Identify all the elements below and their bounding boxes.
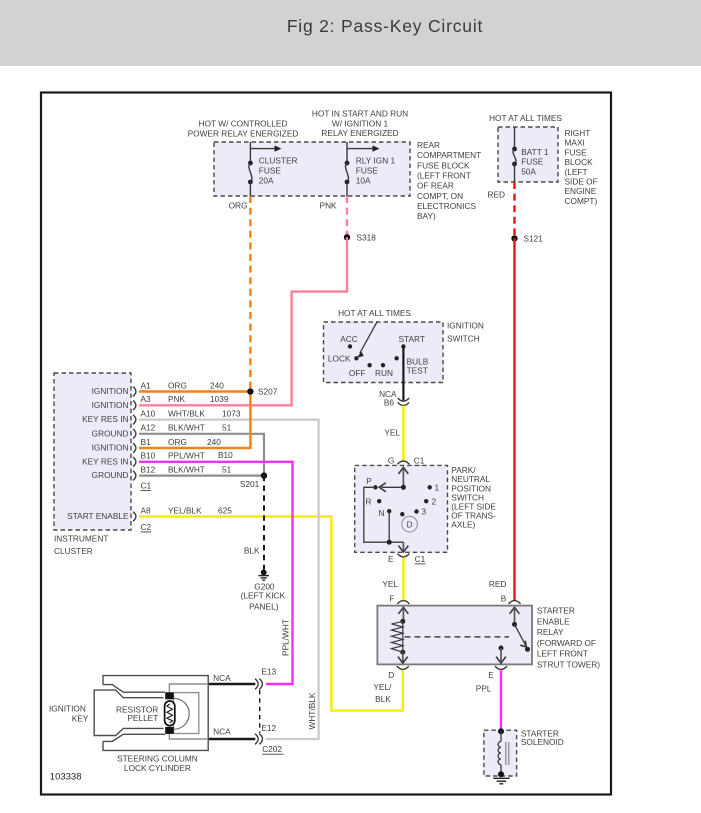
wire YEL/BLK relay D to A8 xyxy=(139,517,403,711)
svg-text:103338: 103338 xyxy=(50,772,82,783)
splice S318 xyxy=(344,233,376,243)
svg-text:KEY RES IN: KEY RES IN xyxy=(82,414,128,424)
svg-text:ENGINE: ENGINE xyxy=(565,186,597,196)
svg-text:ACC: ACC xyxy=(340,334,358,344)
svg-text:A3: A3 xyxy=(141,394,152,404)
svg-text:BATT 1: BATT 1 xyxy=(521,147,549,157)
svg-text:ORG: ORG xyxy=(229,201,248,211)
wire RED S121 to relay pin B xyxy=(513,238,515,601)
splice S121 xyxy=(511,234,543,244)
relay pin D xyxy=(388,666,409,680)
svg-text:D: D xyxy=(407,519,413,529)
title banner xyxy=(0,0,701,66)
svg-text:FUSE: FUSE xyxy=(521,157,544,167)
svg-text:REAR: REAR xyxy=(417,140,440,150)
label RESISTOR PELLET xyxy=(116,704,158,723)
resistor pellet xyxy=(165,701,175,726)
svg-text:B: B xyxy=(501,594,507,604)
svg-text:TEST: TEST xyxy=(407,365,428,375)
label PPL/WHT B10 xyxy=(168,450,233,461)
svg-text:AXLE): AXLE) xyxy=(451,520,475,530)
svg-text:1073: 1073 xyxy=(222,408,241,418)
svg-text:CLUSTER: CLUSTER xyxy=(54,546,93,556)
wire BLK S201 to G200 xyxy=(263,476,265,570)
contact dot P xyxy=(373,485,377,489)
contact dot RUN xyxy=(381,363,385,367)
svg-text:240: 240 xyxy=(210,380,224,390)
wire PNK S318 to A3 xyxy=(139,237,347,405)
svg-text:(LEFT KICK: (LEFT KICK xyxy=(241,590,286,600)
contact dot R xyxy=(377,499,381,503)
wire PNK dashed fuse to S318 xyxy=(346,196,348,235)
svg-text:KEY: KEY xyxy=(72,714,89,724)
svg-text:COMPT, ON: COMPT, ON xyxy=(417,191,463,201)
svg-text:A12: A12 xyxy=(141,423,156,433)
svg-text:1: 1 xyxy=(435,482,440,492)
wire RED dashed fuse to S121 xyxy=(513,182,515,235)
svg-text:F: F xyxy=(389,594,394,604)
svg-text:LOCK: LOCK xyxy=(328,353,351,363)
relay F entry arrow xyxy=(399,607,409,621)
svg-text:B1: B1 xyxy=(141,437,152,447)
label C202 xyxy=(262,744,283,754)
label ORG 240 (B1) xyxy=(168,437,221,447)
label YEL/BLK 625 (A8) xyxy=(168,505,232,515)
svg-text:ORG: ORG xyxy=(168,380,187,390)
connector E12 xyxy=(255,723,277,745)
label YEL/ BLK xyxy=(373,682,392,704)
cluster pin A8 xyxy=(133,505,151,521)
junction dot bottom xyxy=(387,540,392,545)
svg-text:IGNITION: IGNITION xyxy=(92,400,129,410)
cluster pin A3 xyxy=(133,394,151,410)
park/neutral position switch box xyxy=(355,465,448,552)
label ORG 240 (A1) xyxy=(168,380,224,390)
svg-text:STRUT TOWER): STRUT TOWER) xyxy=(537,660,600,670)
svg-text:PPL: PPL xyxy=(476,684,492,694)
svg-text:NCA: NCA xyxy=(213,673,231,683)
contact housing rect xyxy=(174,693,199,734)
svg-text:PNK: PNK xyxy=(320,201,338,211)
svg-text:BLOCK: BLOCK xyxy=(565,157,594,167)
svg-text:WHT/BLK: WHT/BLK xyxy=(168,408,205,418)
svg-text:IGNITION: IGNITION xyxy=(92,386,129,396)
svg-text:E: E xyxy=(488,670,494,680)
svg-text:HOT W/ CONTROLLED: HOT W/ CONTROLLED xyxy=(199,119,288,129)
contact dot OFF xyxy=(367,363,371,367)
relay coil xyxy=(392,619,406,655)
svg-text:IGNITION: IGNITION xyxy=(447,321,484,331)
svg-text:IGNITION: IGNITION xyxy=(92,443,129,453)
svg-text:10A: 10A xyxy=(356,176,371,186)
svg-text:N: N xyxy=(379,508,385,518)
relay B entry arrow xyxy=(510,607,520,624)
svg-text:ELECTRONICS: ELECTRONICS xyxy=(417,201,476,211)
svg-text:PELLET: PELLET xyxy=(127,713,158,723)
svg-text:B10: B10 xyxy=(218,450,233,460)
svg-text:A8: A8 xyxy=(141,505,152,515)
svg-text:R: R xyxy=(366,496,372,506)
contact dot START xyxy=(401,344,405,348)
label INSTRUMENT CLUSTER xyxy=(54,534,108,557)
relay pin B xyxy=(501,594,521,604)
park/neutral switch pin E xyxy=(388,554,426,564)
svg-text:OF REAR: OF REAR xyxy=(417,181,454,191)
fuse BATT 1 FUSE 50A xyxy=(512,127,549,182)
starter solenoid coil xyxy=(498,728,509,777)
svg-text:W/ IGNITION 1: W/ IGNITION 1 xyxy=(332,118,389,128)
relay coil-to-switch dashed link xyxy=(405,636,510,638)
svg-text:HOT AT ALL TIMES: HOT AT ALL TIMES xyxy=(338,308,411,318)
svg-text:PNK: PNK xyxy=(168,394,186,404)
svg-text:BAY): BAY) xyxy=(417,211,436,221)
svg-text:BLK/WHT: BLK/WHT xyxy=(168,464,205,474)
wire NCA key to E12 xyxy=(208,738,255,740)
svg-text:WHT/BLK: WHT/BLK xyxy=(307,692,317,729)
svg-text:RED: RED xyxy=(487,190,505,200)
svg-text:YEL: YEL xyxy=(382,579,398,589)
label STEERING COLUMN LOCK CYLINDER xyxy=(117,754,198,774)
contact dot N xyxy=(387,509,391,513)
wire P and N to pin E inside switch xyxy=(364,487,404,542)
label PNK 1039 (A3) xyxy=(168,394,229,404)
relay switch blade xyxy=(512,622,530,652)
svg-text:LEFT FRONT: LEFT FRONT xyxy=(537,649,588,659)
ground at starter solenoid xyxy=(493,778,509,784)
park switch exit arrow to E xyxy=(399,542,409,552)
wire ORG dashed fuse to S207 xyxy=(249,196,251,388)
svg-text:START: START xyxy=(398,334,424,344)
svg-text:625: 625 xyxy=(218,505,232,515)
ground G200 xyxy=(241,570,286,612)
label REAR COMPARTMENT FUSE BLOCK location xyxy=(417,140,481,221)
svg-text:S207: S207 xyxy=(258,387,278,397)
ignition key outline xyxy=(94,690,163,735)
svg-text:S318: S318 xyxy=(357,233,377,243)
label IGNITION KEY xyxy=(49,703,89,723)
splice S207 xyxy=(247,387,278,397)
relay E contact xyxy=(496,646,506,664)
lock cylinder top notch xyxy=(103,685,165,693)
key contact pad top xyxy=(165,692,174,699)
fuse CLUSTER FUSE 20A xyxy=(248,142,298,196)
fuse RLY IGN 1 FUSE 10A xyxy=(345,142,396,196)
cluster pin A1 xyxy=(133,380,151,396)
svg-text:RLY IGN 1: RLY IGN 1 xyxy=(356,155,396,165)
contact dot ACC xyxy=(348,344,352,348)
svg-text:BLK: BLK xyxy=(375,694,391,704)
svg-text:C2: C2 xyxy=(141,522,152,532)
svg-text:KEY RES IN: KEY RES IN xyxy=(82,456,128,466)
svg-text:FUSE: FUSE xyxy=(356,165,379,175)
svg-text:C1: C1 xyxy=(415,554,426,564)
ignition switch box xyxy=(324,322,444,383)
svg-text:2: 2 xyxy=(432,496,437,506)
cluster pin A10 xyxy=(133,408,156,424)
label BLK/WHT 51 (B12) xyxy=(168,464,232,474)
cluster connector C1 xyxy=(141,480,152,490)
svg-text:COMPARTMENT: COMPARTMENT xyxy=(417,150,481,160)
svg-text:C202: C202 xyxy=(262,744,282,754)
label HOT W/ CONTROLLED POWER RELAY ENERGIZED xyxy=(188,119,299,139)
wire BLK/WHT B12 to S201 xyxy=(139,475,264,477)
svg-text:P: P xyxy=(366,476,372,486)
svg-text:B6: B6 xyxy=(384,397,395,407)
instrument cluster box xyxy=(54,373,131,530)
park switch wiper to P xyxy=(379,483,403,492)
wire START contact to connector B6 xyxy=(402,346,404,400)
svg-text:YEL: YEL xyxy=(384,428,400,438)
svg-text:E12: E12 xyxy=(261,723,276,733)
svg-text:FUSE BLOCK: FUSE BLOCK xyxy=(417,160,470,170)
cluster pin A12 xyxy=(133,423,156,439)
splice S201 xyxy=(240,472,267,489)
park switch entry arrow from G xyxy=(399,467,409,487)
lock cylinder bottom notch xyxy=(103,734,165,741)
svg-text:D: D xyxy=(388,670,394,680)
key contact leads xyxy=(169,684,208,739)
label WHT/BLK 1073 (A10) xyxy=(168,408,241,418)
ignition switch wiper xyxy=(358,322,377,357)
svg-text:(LEFT: (LEFT xyxy=(565,167,588,177)
label RIGHT MAXI FUSE BLOCK location xyxy=(565,128,598,206)
wire YEL park switch to relay F xyxy=(402,558,404,601)
relay pin E xyxy=(488,666,507,680)
wire ORG A1 to S207 xyxy=(139,390,250,392)
svg-text:STARTER: STARTER xyxy=(537,606,575,616)
svg-text:COMPT): COMPT) xyxy=(565,196,598,206)
svg-text:G: G xyxy=(388,456,394,466)
starter solenoid box xyxy=(484,730,517,776)
svg-text:RUN: RUN xyxy=(375,368,393,378)
svg-text:ORG: ORG xyxy=(168,437,187,447)
svg-text:SIDE OF: SIDE OF xyxy=(565,177,598,187)
label STARTER SOLENOID xyxy=(521,728,564,747)
junction dot under G xyxy=(401,485,406,490)
svg-text:SOLENOID: SOLENOID xyxy=(521,737,564,747)
svg-text:FUSE: FUSE xyxy=(259,165,282,175)
svg-text:GROUND: GROUND xyxy=(92,470,129,480)
relay D exit arrow xyxy=(398,652,408,663)
connector link C202 dashed xyxy=(259,690,261,733)
cluster pin B1 xyxy=(133,437,151,453)
right maxi fuse block box xyxy=(498,127,558,182)
wire WHT/BLK A10 to E12 xyxy=(139,420,319,739)
wire PPL relay E to starter solenoid xyxy=(500,670,502,731)
svg-text:Fig 2: Pass-Key Circuit: Fig 2: Pass-Key Circuit xyxy=(287,16,483,36)
svg-text:ENABLE: ENABLE xyxy=(537,616,570,626)
diagram border frame xyxy=(41,93,611,795)
starter enable relay box xyxy=(377,606,532,665)
svg-text:HOT AT ALL TIMES: HOT AT ALL TIMES xyxy=(489,113,562,123)
cluster pin B12 xyxy=(133,464,156,480)
label PARK/NEUTRAL POSITION SWITCH location xyxy=(451,465,496,530)
contact dot 3 xyxy=(414,509,418,513)
svg-text:RELAY: RELAY xyxy=(537,627,564,637)
svg-text:SWITCH: SWITCH xyxy=(447,334,480,344)
circled D contact xyxy=(402,516,418,532)
svg-text:E13: E13 xyxy=(261,667,276,677)
svg-text:E: E xyxy=(388,554,394,564)
connector B6 xyxy=(379,389,409,407)
wire BLK/WHT A12 to S201 xyxy=(139,434,264,476)
svg-text:OFF: OFF xyxy=(349,368,366,378)
svg-text:C1: C1 xyxy=(141,480,152,490)
svg-text:B10: B10 xyxy=(141,451,156,461)
svg-text:RED: RED xyxy=(489,579,507,589)
svg-text:NCA: NCA xyxy=(213,727,231,737)
svg-text:BLK: BLK xyxy=(244,546,260,556)
svg-text:POWER RELAY ENERGIZED: POWER RELAY ENERGIZED xyxy=(188,129,299,139)
cluster pin B10 xyxy=(133,451,156,467)
cluster connector C2 xyxy=(141,522,152,532)
svg-text:3: 3 xyxy=(422,507,427,517)
svg-text:1039: 1039 xyxy=(210,394,229,404)
svg-text:(LEFT FRONT: (LEFT FRONT xyxy=(417,171,471,181)
wire PPL/WHT B10 to E13 xyxy=(139,462,293,684)
label BLK/WHT 51 (A12) xyxy=(168,423,232,433)
park/neutral position switch pin G xyxy=(388,456,425,466)
svg-text:A10: A10 xyxy=(141,408,156,418)
svg-text:20A: 20A xyxy=(259,176,274,186)
svg-text:S121: S121 xyxy=(524,234,544,244)
svg-text:S201: S201 xyxy=(240,479,260,489)
wire ORG B1 to S207 xyxy=(139,392,250,449)
svg-text:(FORWARD OF: (FORWARD OF xyxy=(537,638,596,648)
rear compartment fuse block box xyxy=(214,142,410,196)
svg-text:PPL/WHT: PPL/WHT xyxy=(168,451,205,461)
svg-text:FUSE: FUSE xyxy=(565,147,588,157)
svg-text:C1: C1 xyxy=(414,456,425,466)
svg-text:PPL/WHT: PPL/WHT xyxy=(281,619,291,656)
key contact pad bottom xyxy=(165,727,174,734)
svg-text:HOT IN START AND RUN: HOT IN START AND RUN xyxy=(312,109,408,119)
contact dot 2 xyxy=(424,499,428,503)
svg-text:B12: B12 xyxy=(141,464,156,474)
svg-text:PANEL): PANEL) xyxy=(249,601,279,611)
contact dot BULB TEST xyxy=(394,356,398,360)
svg-text:A1: A1 xyxy=(141,380,152,390)
svg-text:MAXI: MAXI xyxy=(565,138,585,148)
svg-text:50A: 50A xyxy=(521,166,536,176)
svg-text:YEL/BLK: YEL/BLK xyxy=(168,505,202,515)
contact dot 1 xyxy=(428,485,432,489)
svg-text:BLK/WHT: BLK/WHT xyxy=(168,423,205,433)
contact dot LOCK xyxy=(354,356,358,360)
relay pin F xyxy=(389,594,409,604)
svg-text:51: 51 xyxy=(222,464,232,474)
svg-text:GROUND: GROUND xyxy=(92,428,129,438)
wire NCA key to E13 xyxy=(208,683,255,685)
svg-text:YEL/: YEL/ xyxy=(373,682,392,692)
svg-text:LOCK CYLINDER: LOCK CYLINDER xyxy=(124,763,191,773)
svg-text:240: 240 xyxy=(207,437,221,447)
D-shaped contact arc xyxy=(174,698,190,729)
contact dot unlabeled xyxy=(400,512,404,516)
label BULB TEST xyxy=(407,357,429,376)
label HOT IN START AND RUN W/ IGNITION 1 RELAY ENERGIZED xyxy=(312,109,408,139)
svg-text:START ENABLE: START ENABLE xyxy=(67,511,129,521)
label IGNITION SWITCH xyxy=(447,321,484,344)
svg-text:INSTRUMENT: INSTRUMENT xyxy=(54,534,108,544)
label STARTER ENABLE RELAY location xyxy=(537,606,600,670)
svg-text:RIGHT: RIGHT xyxy=(565,128,591,138)
svg-text:IGNITION: IGNITION xyxy=(49,703,86,713)
wire YEL B6 to park/neutral switch xyxy=(402,406,404,461)
svg-text:CLUSTER: CLUSTER xyxy=(259,155,298,165)
svg-text:RELAY ENERGIZED: RELAY ENERGIZED xyxy=(321,128,398,138)
svg-text:STEERING COLUMN: STEERING COLUMN xyxy=(117,754,198,764)
steering column lock cylinder housing xyxy=(103,676,208,751)
connector E13 xyxy=(255,667,277,690)
svg-text:51: 51 xyxy=(222,423,232,433)
